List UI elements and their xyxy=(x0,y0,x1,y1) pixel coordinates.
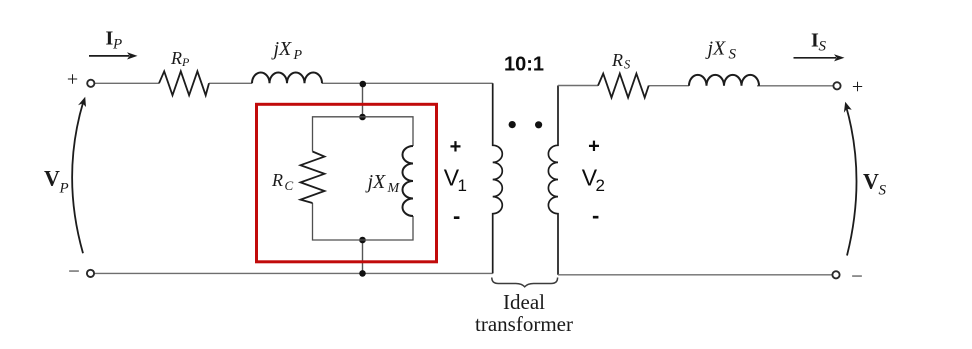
node: junction on top wire xyxy=(360,81,367,88)
svg-text:R: R xyxy=(170,48,182,68)
current arrow IP xyxy=(89,52,138,59)
brace under ideal transformer xyxy=(492,278,558,287)
svg-text:Ideal: Ideal xyxy=(503,290,545,314)
resistor RP xyxy=(159,71,209,95)
wire: top primary wire from + terminal to ideal transformer primary xyxy=(95,82,493,84)
ideal transformer secondary winding xyxy=(548,86,558,275)
terminal: secondary top xyxy=(833,82,840,89)
terminal: primary top xyxy=(87,80,94,87)
svg-text:P: P xyxy=(181,55,190,69)
svg-text:2: 2 xyxy=(596,176,605,195)
svg-text:-: - xyxy=(453,203,460,228)
wire: vertical drop from top wire into shunt branch xyxy=(362,83,364,117)
terminal: secondary bottom xyxy=(832,271,839,278)
svg-text:1: 1 xyxy=(458,176,467,195)
node: junction at shunt bottom xyxy=(359,237,366,244)
svg-text:+: + xyxy=(588,136,600,158)
wire: bottom primary wire xyxy=(95,272,493,274)
svg-text:-: - xyxy=(592,203,599,228)
svg-text:R: R xyxy=(611,50,623,70)
polarity dot: secondary xyxy=(535,121,542,128)
svg-text:P: P xyxy=(293,48,303,63)
svg-text:V: V xyxy=(863,169,879,194)
svg-text:R: R xyxy=(271,170,283,190)
svg-text:10:1: 10:1 xyxy=(504,53,544,75)
svg-text:M: M xyxy=(387,181,401,196)
svg-text:–: – xyxy=(68,260,79,281)
svg-text:C: C xyxy=(285,178,294,193)
terminal: primary bottom xyxy=(87,270,94,277)
svg-text:–: – xyxy=(851,265,862,286)
wire: shunt branch rectangle (RC ∥ jXM) xyxy=(313,117,414,240)
voltage arrow VS (curved, arrowhead up) xyxy=(844,102,857,256)
svg-text:jX: jX xyxy=(705,38,727,60)
excitation-branch highlight box (red) xyxy=(257,104,437,261)
wire: vertical from shunt branch bottom to bottom wire xyxy=(362,240,364,273)
resistor RC (vertical) xyxy=(301,152,325,204)
svg-text:jX: jX xyxy=(365,171,387,193)
svg-text:+: + xyxy=(450,136,462,158)
inductor jXP xyxy=(252,73,322,84)
wire: secondary bottom wire xyxy=(558,274,832,276)
svg-text:S: S xyxy=(624,58,631,72)
inductor jXM (vertical, humps west) xyxy=(403,146,413,216)
resistor RS xyxy=(598,74,649,98)
svg-text:S: S xyxy=(879,183,887,199)
svg-text:S: S xyxy=(819,39,827,55)
svg-text:+: + xyxy=(67,69,78,91)
node: junction at shunt top xyxy=(359,114,366,121)
svg-text:+: + xyxy=(852,76,863,98)
svg-text:P: P xyxy=(59,181,69,197)
voltage arrow VP (curved, arrowhead up) xyxy=(72,97,86,253)
node: junction on bottom wire xyxy=(359,270,366,277)
polarity dot: primary xyxy=(509,121,516,128)
svg-text:V: V xyxy=(44,166,60,191)
svg-text:jX: jX xyxy=(271,38,293,60)
svg-text:S: S xyxy=(729,47,737,63)
current arrow IS xyxy=(794,54,845,61)
inductor jXS xyxy=(689,75,759,86)
svg-text:transformer: transformer xyxy=(475,312,573,336)
ideal transformer primary winding xyxy=(493,83,503,273)
svg-text:P: P xyxy=(112,37,122,53)
wire: secondary top wire xyxy=(558,85,833,87)
